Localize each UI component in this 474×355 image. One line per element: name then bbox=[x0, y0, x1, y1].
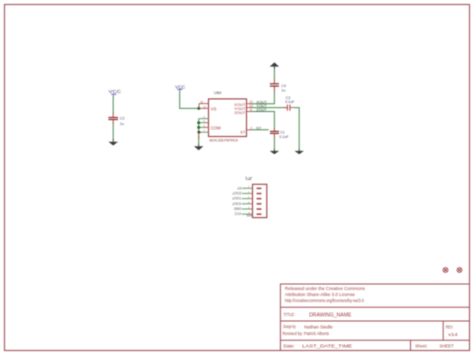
svg-text:C4: C4 bbox=[281, 84, 286, 88]
supply VCC (left column) bbox=[109, 89, 122, 97]
svg-text:v14: v14 bbox=[448, 332, 458, 337]
wire VCC to C2 bbox=[112, 97, 114, 114]
pin 10 YOUT stub bbox=[247, 107, 253, 109]
svg-text:SHEET: SHEET bbox=[440, 344, 454, 349]
JP1 pad 2 bbox=[257, 193, 262, 195]
svg-text:VCC: VCC bbox=[109, 89, 122, 94]
svg-text:0.1uF: 0.1uF bbox=[285, 100, 295, 104]
registration mark 1 bbox=[443, 268, 448, 273]
JP1 pin 1 stub + wire ST bbox=[250, 187, 252, 189]
svg-text:Date:: Date: bbox=[283, 344, 294, 349]
svg-text:ZOUT: ZOUT bbox=[232, 191, 241, 195]
JP1 pad 6 bbox=[257, 213, 262, 215]
JP1 pin 5 stub + wire GND bbox=[250, 208, 252, 210]
junction COM c bbox=[197, 131, 200, 134]
wire C4 to top ground bbox=[273, 68, 275, 80]
JP1 pad 4 bbox=[257, 203, 262, 205]
svg-text:0.1uF: 0.1uF bbox=[279, 135, 289, 139]
wire C3 to ground right bbox=[294, 108, 299, 150]
svg-text:Nathan Siedle: Nathan Siedle bbox=[304, 325, 333, 330]
JP1 pad 5 bbox=[257, 208, 262, 210]
JP1 pad 3 bbox=[257, 198, 262, 200]
svg-text:REV:: REV: bbox=[446, 325, 454, 330]
ground (left column) bbox=[108, 139, 118, 146]
JP1 pin 4 stub + wire XOUT bbox=[250, 203, 252, 205]
wire COM bus vertical bbox=[198, 119, 200, 133]
wire YOUT bbox=[252, 107, 288, 109]
pin 6 COM stub bbox=[199, 126, 204, 128]
title block outline bbox=[280, 284, 469, 351]
svg-text:YOUT: YOUT bbox=[232, 196, 241, 200]
op-amp U1 : accelerometer IC U$4 bbox=[209, 91, 247, 142]
pin 2 ST stub bbox=[247, 129, 253, 131]
svg-text:Released under the Creative Co: Released under the Creative Commons bbox=[285, 286, 365, 291]
svg-text:VS: VS bbox=[211, 107, 217, 112]
pin 14 VS stub bbox=[199, 107, 209, 109]
JP1 pin 6 stub + wire VCC bbox=[250, 213, 252, 215]
svg-text:LAST_DATE_TIME: LAST_DATE_TIME bbox=[302, 344, 352, 349]
title block license text bbox=[285, 286, 365, 303]
pin 3 COM stub bbox=[199, 118, 209, 120]
svg-text:ST: ST bbox=[240, 129, 246, 134]
junction COM b bbox=[197, 126, 200, 129]
JP1 pin 2 stub + wire ZOUT bbox=[250, 193, 252, 195]
svg-text:Attribution Share-Alike 3.0 Li: Attribution Share-Alike 3.0 License bbox=[285, 292, 356, 297]
svg-text:1u: 1u bbox=[120, 122, 124, 126]
svg-text:U$4: U$4 bbox=[214, 91, 221, 95]
wire pin15 to pin14 bbox=[198, 104, 200, 109]
ground (top, pointing up) bbox=[270, 62, 279, 69]
svg-text:JP1: JP1 bbox=[244, 176, 252, 181]
svg-text:ZOUT: ZOUT bbox=[234, 110, 245, 115]
ground (right column) bbox=[295, 149, 304, 154]
junction COM a bbox=[197, 121, 200, 124]
capacitor C2 bbox=[108, 113, 124, 126]
wire VCC to VS pin bbox=[180, 92, 199, 108]
svg-text:XOUT: XOUT bbox=[232, 201, 241, 205]
wire COM to ground bbox=[198, 132, 200, 144]
connector JP1 bbox=[244, 176, 266, 218]
svg-text:ZOUT: ZOUT bbox=[256, 108, 267, 112]
supply VCC (at U$4) bbox=[175, 84, 186, 92]
pin 12 XOUT stub bbox=[247, 103, 253, 105]
svg-text:1u: 1u bbox=[281, 88, 285, 92]
junction VS bbox=[197, 107, 200, 110]
svg-text:TITLE:: TITLE: bbox=[283, 312, 295, 317]
svg-text:Design by:: Design by: bbox=[283, 324, 296, 329]
svg-text:http://creativecommons.org/lic: http://creativecommons.org/licenses/by-s… bbox=[285, 298, 365, 303]
svg-text:Revised by: Patrick Alberts: Revised by: Patrick Alberts bbox=[283, 331, 330, 336]
pin 15 VS stub bbox=[199, 103, 209, 105]
capacitor C4 bbox=[270, 79, 286, 93]
JP1 pin 3 stub + wire YOUT bbox=[250, 198, 252, 200]
svg-text:GND: GND bbox=[233, 207, 241, 211]
registration mark 2 bbox=[457, 268, 462, 273]
svg-text:Sheet:: Sheet: bbox=[415, 344, 427, 349]
wire XOUT bbox=[252, 92, 275, 104]
svg-text:VCC: VCC bbox=[175, 84, 186, 89]
pin 5 COM stub bbox=[199, 122, 204, 124]
wire C2 to ground bbox=[112, 124, 114, 139]
wire ZOUT bbox=[252, 112, 275, 129]
wire C1 to ground bbox=[273, 138, 275, 151]
ground (COM) bbox=[194, 144, 203, 150]
pin 8 ZOUT stub bbox=[247, 111, 253, 113]
svg-text:VCC: VCC bbox=[234, 212, 242, 216]
svg-text:ADXL335-PATRICK: ADXL335-PATRICK bbox=[209, 139, 239, 143]
svg-text:C1: C1 bbox=[280, 130, 285, 134]
pin 7 COM stub bbox=[199, 131, 209, 133]
wire ST bbox=[252, 129, 269, 131]
svg-text:DRAWING_NAME: DRAWING_NAME bbox=[309, 312, 351, 318]
ground (below C1) bbox=[270, 149, 279, 154]
capacitor C3 bbox=[283, 96, 295, 111]
svg-text:C2: C2 bbox=[120, 116, 125, 120]
svg-text:COM: COM bbox=[211, 126, 221, 131]
capacitor C1 bbox=[270, 128, 289, 139]
JP1 pad 1 bbox=[257, 188, 262, 190]
svg-text:ST: ST bbox=[256, 126, 262, 130]
svg-text:ST: ST bbox=[237, 186, 241, 190]
